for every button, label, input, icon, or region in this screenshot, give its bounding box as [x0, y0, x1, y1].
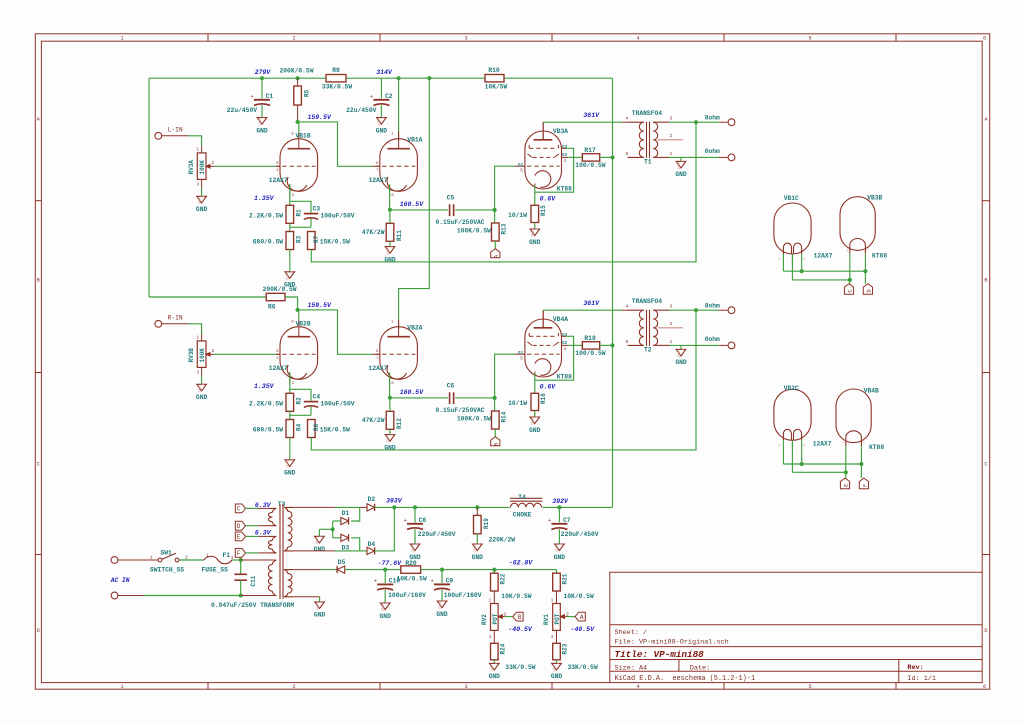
- wire B+ rail 279V/314V: [149, 77, 326, 79]
- svg-text:C1: C1: [266, 93, 274, 100]
- svg-text:R17: R17: [584, 147, 596, 154]
- connector 8ohm output: [728, 119, 735, 126]
- T3 HV secondary winding: [284, 507, 293, 511]
- svg-text:100uF/160V: 100uF/160V: [444, 592, 482, 599]
- wire input to pot: [162, 135, 189, 137]
- svg-text:7: 7: [376, 357, 378, 361]
- svg-text:R3: R3: [296, 235, 303, 243]
- heater unit VB2C 12AX7: [774, 389, 811, 440]
- svg-text:33K/0.5W: 33K/0.5W: [505, 664, 535, 671]
- svg-text:GND: GND: [287, 461, 291, 467]
- junction 393V: [392, 505, 396, 509]
- svg-text:D4: D4: [368, 541, 376, 548]
- wire pot pin3 to ground: [201, 367, 203, 375]
- ground under cathode resistor: [385, 247, 395, 254]
- svg-text:R14: R14: [501, 411, 508, 422]
- resistor R13 100K/0.5W grid leak: [494, 210, 496, 223]
- svg-text:279V: 279V: [255, 69, 272, 76]
- ground under C9: [437, 601, 447, 608]
- svg-text:GND: GND: [472, 554, 484, 561]
- svg-text:0ohm: 0ohm: [705, 148, 720, 155]
- svg-text:GND: GND: [474, 546, 478, 552]
- T2 pin 2 stub: [658, 327, 684, 329]
- svg-text:GND: GND: [314, 612, 326, 619]
- wire heater pin9 VB2C: [791, 440, 793, 472]
- svg-text:R15: R15: [540, 205, 547, 216]
- wire cathode VB2B: [289, 372, 291, 393]
- svg-text:15K/0.5W: 15K/0.5W: [320, 239, 350, 246]
- svg-text:1: 1: [120, 684, 123, 690]
- resistor R16 10/1W cathode: [531, 393, 539, 410]
- svg-text:220uF/450V: 220uF/450V: [418, 531, 456, 538]
- resistor R8 15K/0.5W feedback: [308, 420, 316, 438]
- svg-text:0.6V: 0.6V: [540, 383, 557, 390]
- wire G3 to cathode: [562, 335, 567, 337]
- svg-text:GND: GND: [198, 386, 202, 392]
- capacitor C6 0.15uF/250VAC coupling: [390, 397, 448, 399]
- wire G2 to screen resistor: [562, 344, 569, 346]
- wire HV winding bottom: [293, 550, 336, 552]
- svg-text:B: B: [37, 278, 40, 284]
- svg-text:4: 4: [636, 36, 639, 42]
- resistor R9 33K/0.5W: [326, 75, 346, 82]
- capacitor C9 100uF/160V: [441, 570, 443, 583]
- svg-text:R-IN: R-IN: [168, 315, 183, 322]
- ground rectifier center: [315, 536, 325, 543]
- svg-text:GND: GND: [316, 538, 320, 544]
- T3 heater winding C-D: [269, 508, 276, 512]
- T3 primary winding: [269, 560, 276, 564]
- svg-text:1: 1: [670, 339, 673, 345]
- svg-text:GND: GND: [284, 470, 296, 477]
- wire cathode VB1A node 160.5V: [389, 185, 391, 210]
- wire pot wiper to tube grid: [214, 165, 276, 167]
- svg-text:5: 5: [626, 339, 629, 345]
- diode D3: [333, 537, 341, 539]
- svg-text:G1: G1: [518, 163, 524, 168]
- wire heater pin5 VB1C: [801, 254, 803, 271]
- connector 8ohm output: [728, 307, 735, 314]
- svg-text:-77.6V: -77.6V: [378, 560, 403, 567]
- capacitor C4 100uF/50V cathode bypass: [290, 389, 311, 400]
- svg-text:GND: GND: [491, 665, 495, 671]
- svg-text:R11: R11: [396, 230, 403, 241]
- wire negative feedback from 8ohm tap: [311, 122, 696, 262]
- resistor R21 10K/0.5W: [556, 570, 558, 574]
- svg-text:22u/450V: 22u/450V: [346, 107, 376, 114]
- svg-text:VB2C: VB2C: [784, 385, 799, 392]
- svg-text:GND: GND: [532, 419, 536, 425]
- transformer T2 TRANSFO4: [628, 309, 644, 311]
- svg-text:2: 2: [292, 684, 295, 690]
- wire -62.8V bias rail: [421, 569, 557, 571]
- svg-text:6.3V: 6.3V: [255, 530, 272, 537]
- wire 0ohm output: [669, 344, 719, 346]
- resistor R7 15K/0.5W feedback: [308, 232, 316, 250]
- junction C11 top: [239, 558, 243, 562]
- ground at transformer pin1: [680, 345, 682, 349]
- svg-text:GND: GND: [678, 351, 682, 357]
- svg-text:VB2B: VB2B: [296, 321, 311, 328]
- svg-text:G3: G3: [562, 145, 568, 150]
- svg-text:3: 3: [464, 36, 467, 42]
- junction R5 tap: [296, 76, 300, 80]
- wire HV winding top to rectifier: [293, 506, 336, 508]
- svg-text:E: E: [237, 534, 241, 541]
- wire 0ohm output: [669, 156, 719, 158]
- svg-text:R9: R9: [332, 67, 340, 74]
- svg-text:B: B: [493, 442, 500, 446]
- svg-text:100/0.5W: 100/0.5W: [575, 162, 605, 169]
- svg-text:VB2A: VB2A: [407, 325, 422, 332]
- svg-text:R12: R12: [396, 418, 403, 429]
- svg-text:TRANSFO4: TRANSFO4: [632, 298, 662, 305]
- capacitor C1 22u/450V: [261, 78, 263, 98]
- connector 0ohm output: [728, 154, 735, 161]
- svg-text:47K/2W: 47K/2W: [362, 417, 385, 424]
- svg-text:6: 6: [983, 36, 986, 42]
- svg-text:0.15uF/250VAC: 0.15uF/250VAC: [435, 407, 484, 414]
- svg-text:C: C: [237, 506, 241, 513]
- svg-text:GND: GND: [553, 665, 557, 671]
- svg-text:GND: GND: [382, 605, 386, 611]
- svg-text:GND: GND: [198, 198, 202, 204]
- svg-text:2.2K/0.5W: 2.2K/0.5W: [249, 401, 283, 408]
- svg-text:FUSE_SS: FUSE_SS: [202, 567, 229, 574]
- svg-text:VB4A: VB4A: [553, 316, 568, 323]
- junction B+ tap: [610, 155, 614, 159]
- junction heater: [863, 269, 867, 273]
- svg-text:B: B: [518, 614, 522, 621]
- ground under C1: [257, 118, 267, 125]
- wire cathode VB1B: [289, 184, 291, 205]
- svg-text:10/1W: 10/1W: [508, 400, 527, 407]
- svg-text:C7: C7: [563, 517, 571, 524]
- triode VB2B 12AX7 first stage: [280, 327, 318, 380]
- svg-text:GND: GND: [196, 394, 208, 401]
- svg-text:6: 6: [983, 684, 986, 690]
- resistor R17 100/0.5W screen stopper: [582, 154, 599, 161]
- wire choke to 392V: [542, 506, 612, 508]
- svg-text:1: 1: [670, 151, 673, 157]
- svg-text:C2: C2: [385, 93, 393, 100]
- node grid KT88: [493, 396, 497, 400]
- ground under C8: [410, 544, 420, 551]
- svg-text:100uF/50V: 100uF/50V: [321, 213, 355, 220]
- svg-text:GND: GND: [378, 119, 382, 125]
- svg-text:2: 2: [212, 160, 215, 166]
- svg-text:RV3B: RV3B: [188, 348, 195, 363]
- wire negative feedback from 8ohm tap: [311, 310, 696, 450]
- svg-text:RV2: RV2: [481, 614, 488, 625]
- svg-text:GND: GND: [287, 273, 291, 279]
- svg-text:+: +: [548, 518, 551, 524]
- diode D5 bias rectifier: [336, 566, 338, 573]
- svg-text:G3: G3: [562, 333, 568, 338]
- svg-text:7: 7: [863, 442, 865, 446]
- svg-text:POT: POT: [554, 613, 561, 624]
- wire pot pin3: [556, 630, 558, 643]
- wire to KT88 grid: [495, 166, 515, 210]
- svg-text:10/1W: 10/1W: [508, 212, 527, 219]
- svg-text:0.6V: 0.6V: [540, 195, 557, 202]
- svg-text:0.15uF/250VAC: 0.15uF/250VAC: [435, 219, 484, 226]
- svg-text:+: +: [374, 579, 377, 585]
- svg-text:F: F: [237, 550, 241, 557]
- wire R to C bottom: [289, 411, 291, 419]
- svg-text:SW1: SW1: [161, 549, 173, 556]
- potentiometer RV2 POT: [491, 604, 499, 631]
- svg-text:GND: GND: [678, 163, 682, 169]
- global label D heater return: [863, 284, 872, 295]
- wire D3 branch: [351, 538, 360, 551]
- svg-text:4: 4: [626, 304, 629, 310]
- svg-text:C4: C4: [313, 394, 321, 401]
- svg-text:KT88: KT88: [557, 373, 572, 380]
- svg-text:GND: GND: [439, 603, 443, 609]
- resistor R3 680/0.5W: [286, 232, 294, 250]
- junction heater: [800, 462, 804, 466]
- svg-text:1: 1: [320, 601, 324, 603]
- svg-text:Size: A4: Size: A4: [615, 664, 648, 672]
- connector L-IN input jack: [155, 132, 162, 139]
- junction heater: [800, 269, 804, 273]
- transformer T1 TRANSFO4: [628, 121, 644, 123]
- svg-text:GND: GND: [489, 673, 501, 680]
- resistor R12 47K/2W cathode load: [386, 411, 394, 429]
- wire anode to tube: [298, 121, 299, 123]
- svg-text:GND: GND: [316, 603, 320, 609]
- junction B+ tap: [610, 343, 614, 347]
- svg-text:12AX7: 12AX7: [369, 177, 388, 184]
- wire VB1A anode feed: [398, 78, 400, 131]
- resistor R5 200K/0.5W plate load VB1B: [297, 78, 299, 86]
- connector AC IN lower: [111, 592, 118, 599]
- wire fuse to transformer: [232, 559, 241, 561]
- svg-text:R18: R18: [584, 335, 596, 342]
- wire B+ raw rail: [394, 506, 509, 508]
- svg-text:Rev:: Rev:: [907, 664, 923, 672]
- wire 8ohm output: [669, 121, 719, 123]
- wire R to C bottom: [289, 223, 291, 231]
- heater unit VB1C 12AX7: [774, 203, 811, 254]
- svg-text:GND: GND: [529, 239, 541, 246]
- resistor R20 10K/0.5W bias dropper: [385, 569, 401, 571]
- diode D4: [367, 547, 375, 554]
- svg-text:15K/0.5W: 15K/0.5W: [320, 427, 350, 434]
- svg-text:C9: C9: [446, 577, 454, 584]
- svg-text:+: +: [251, 94, 254, 100]
- junction C11 bottom: [239, 593, 243, 597]
- svg-text:VB1B: VB1B: [296, 133, 311, 140]
- T1 pin 2 stub: [658, 139, 684, 141]
- svg-text:R1: R1: [296, 209, 303, 217]
- triode VB1B 12AX7 first stage: [280, 139, 318, 192]
- T3 core: [279, 504, 281, 599]
- ground under pot: [197, 196, 207, 203]
- svg-text:GND: GND: [529, 427, 541, 434]
- diode D2: [360, 506, 367, 508]
- svg-text:680/0.5W: 680/0.5W: [253, 239, 283, 246]
- wire to global label E: [845, 472, 847, 478]
- wire to global label F: [860, 464, 862, 478]
- svg-text:2: 2: [670, 133, 673, 139]
- ground under KT88 cathode resistor: [530, 417, 540, 424]
- wire D4 to 393V node: [375, 507, 395, 551]
- svg-text:1: 1: [478, 543, 482, 545]
- triode VB2A 12AX7 cathode follower: [380, 327, 418, 380]
- wire cathode VB2A node 160.5V: [389, 373, 391, 398]
- svg-text:5: 5: [626, 151, 629, 157]
- ground under R19: [473, 544, 483, 551]
- svg-text:1: 1: [386, 602, 390, 604]
- global label B bias input: [494, 429, 496, 437]
- junction -77.6V: [383, 568, 387, 572]
- potentiometer RV3A 100K: [197, 153, 206, 180]
- svg-text:12AX7: 12AX7: [269, 365, 288, 372]
- global label A bias output: [575, 612, 585, 621]
- svg-text:KiCad E.D.A. eeschema (5.1.2-: KiCad E.D.A. eeschema (5.1.2-1)-1: [615, 675, 756, 683]
- svg-text:12AX7: 12AX7: [269, 177, 288, 184]
- svg-text:R19: R19: [483, 518, 490, 529]
- wire D1 branch: [351, 507, 360, 521]
- global label F heater: [235, 549, 245, 558]
- svg-text:2: 2: [292, 36, 295, 42]
- svg-text:F: F: [861, 484, 868, 487]
- svg-text:A: A: [580, 614, 584, 621]
- junction heater: [844, 470, 848, 474]
- svg-text:361V: 361V: [583, 300, 600, 307]
- svg-text:1: 1: [382, 117, 386, 119]
- heater unit VB3B KT88: [840, 197, 875, 251]
- svg-text:L-IN: L-IN: [168, 127, 183, 134]
- ground under R24: [490, 663, 500, 670]
- global label F heater return: [859, 478, 868, 489]
- svg-text:100K/0.5W: 100K/0.5W: [457, 416, 491, 423]
- wire cathode down: [534, 185, 536, 205]
- svg-text:GND: GND: [387, 248, 391, 254]
- heater unit VB4B KT88: [836, 389, 871, 443]
- wire to global label C: [849, 280, 851, 284]
- svg-text:GND: GND: [196, 206, 208, 213]
- svg-text:5: 5: [808, 684, 811, 690]
- svg-text:GND: GND: [387, 436, 391, 442]
- svg-text:GND: GND: [436, 611, 448, 618]
- svg-text:SWITCH_SS: SWITCH_SS: [150, 567, 184, 574]
- svg-text:R20: R20: [405, 560, 417, 567]
- ground bias winding: [315, 602, 325, 609]
- resistor R23 33K/0.5W: [553, 643, 561, 660]
- svg-text:GND: GND: [259, 119, 263, 125]
- svg-text:3: 3: [464, 684, 467, 690]
- svg-text:1: 1: [320, 535, 324, 537]
- wire heater pin4 VB2C: [782, 440, 784, 464]
- svg-text:R5: R5: [303, 89, 310, 97]
- ground at transformer pin1: [680, 157, 682, 161]
- title block: [610, 572, 982, 682]
- svg-text:7: 7: [376, 169, 378, 173]
- svg-text:GND: GND: [556, 546, 560, 552]
- svg-text:160.5V: 160.5V: [400, 201, 425, 208]
- junction heater: [848, 278, 852, 282]
- svg-text:File: VP-mini88-Original.sch: File: VP-mini88-Original.sch: [615, 639, 729, 647]
- wire bias winding bottom to ground: [293, 596, 320, 598]
- ground under pot: [197, 384, 207, 391]
- svg-text:R24: R24: [500, 643, 507, 654]
- svg-text:GND: GND: [551, 673, 563, 680]
- resistor R2 2.2K/0.5W cathode bias: [286, 393, 294, 411]
- svg-text:100K: 100K: [199, 160, 206, 175]
- svg-text:1: 1: [290, 459, 294, 461]
- svg-text:0ohm: 0ohm: [705, 336, 720, 343]
- svg-text:1: 1: [120, 36, 123, 42]
- svg-text:TRANSFO4: TRANSFO4: [632, 110, 662, 117]
- wire heater bus 1 lower: [783, 463, 861, 465]
- svg-text:GND: GND: [675, 359, 687, 366]
- global label D heater: [235, 521, 245, 530]
- svg-text:D: D: [37, 628, 40, 634]
- svg-text:R16: R16: [540, 393, 547, 404]
- capacitor C2 22u/450V: [380, 78, 382, 98]
- svg-text:D: D: [237, 523, 241, 530]
- svg-text:A: A: [493, 254, 500, 258]
- svg-text:100uF/160V: 100uF/160V: [388, 592, 426, 599]
- svg-text:D5: D5: [338, 559, 346, 566]
- wire heater bus 2 upper: [792, 279, 849, 281]
- ground under cathode resistor: [385, 435, 395, 442]
- wire heater bus 1 upper: [783, 270, 865, 272]
- svg-text:GND: GND: [412, 546, 416, 552]
- triode VB1A 12AX7 cathode follower: [380, 139, 418, 192]
- svg-text:12AX7: 12AX7: [369, 365, 388, 372]
- svg-text:KT88: KT88: [872, 252, 887, 259]
- svg-text:10K/0.5W: 10K/0.5W: [501, 593, 531, 600]
- wire input to pot: [162, 323, 189, 325]
- svg-text:D2: D2: [368, 496, 376, 503]
- svg-text:1: 1: [560, 543, 564, 545]
- capacitor C7 220uF/450V: [558, 507, 560, 522]
- svg-text:RV1: RV1: [543, 614, 550, 625]
- node anode VB2B 159.5V: [296, 308, 300, 312]
- potentiometer RV1 POT: [553, 604, 561, 631]
- svg-text:1: 1: [443, 600, 447, 602]
- wire D1-D3 common to ground: [332, 521, 334, 538]
- svg-text:1: 1: [535, 416, 539, 418]
- svg-text:D: D: [984, 628, 987, 634]
- svg-text:2: 2: [212, 348, 215, 354]
- svg-text:1: 1: [557, 662, 561, 664]
- junction R19 tap: [475, 505, 479, 509]
- svg-text:8ohm: 8ohm: [705, 303, 720, 310]
- svg-text:1: 1: [535, 228, 539, 230]
- svg-text:G1: G1: [518, 351, 524, 356]
- junction C9 tap: [440, 568, 444, 572]
- inductor T4 CHOKE: [510, 497, 543, 499]
- svg-text:B: B: [984, 278, 987, 284]
- junction 8ohm feedback tap: [694, 120, 698, 124]
- svg-text:5: 5: [808, 36, 811, 42]
- connector AC IN upper: [111, 557, 118, 564]
- svg-text:C: C: [37, 462, 40, 468]
- junction 392V C7 tap: [557, 505, 561, 509]
- wire AC neutral: [118, 595, 144, 597]
- wire pot wiper to tube grid: [214, 353, 276, 355]
- svg-text:VB1C: VB1C: [784, 195, 799, 202]
- potentiometer RV3B 100K: [197, 341, 206, 368]
- svg-text:R13: R13: [501, 223, 508, 234]
- node grid KT88: [493, 208, 497, 212]
- svg-text:AC IN: AC IN: [110, 577, 130, 584]
